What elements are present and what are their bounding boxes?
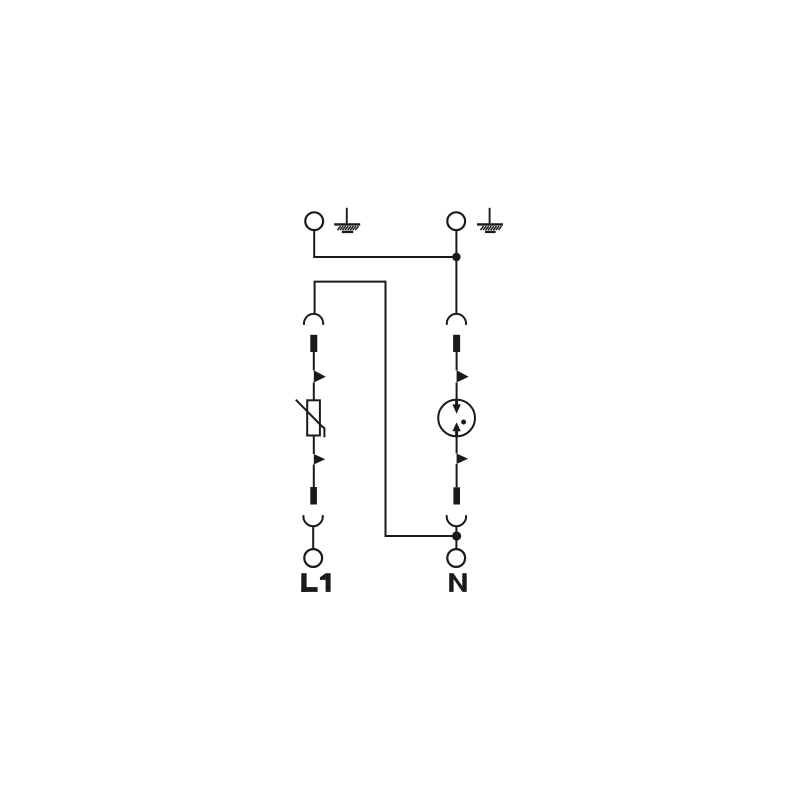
connector blade (L1 top) [310, 335, 317, 352]
arrow marker (N lower) [457, 454, 468, 465]
wire [456, 436, 458, 453]
connector blade (N bottom) [453, 487, 460, 504]
wire: N stem through junction [455, 526, 457, 550]
label L1 [301, 573, 330, 592]
wire [312, 526, 314, 550]
varistor diagonal [296, 400, 325, 438]
wire [456, 352, 458, 370]
label N [449, 573, 466, 592]
spark gap circle [438, 400, 475, 437]
terminal PE-left circle [305, 212, 323, 230]
wire [456, 383, 458, 400]
connector plug arc (L1 top, dome) [304, 314, 323, 325]
arrow marker (L1 lower) [314, 454, 325, 465]
wire: L1 branch top horizontal [315, 282, 386, 315]
wire [313, 383, 315, 401]
connector blade (L1 bottom) [310, 487, 317, 505]
wire [456, 464, 458, 487]
arrow marker (N upper) [457, 370, 469, 382]
terminal N circle [447, 549, 465, 567]
wire [313, 465, 315, 488]
arrow marker (L1 upper) [314, 370, 326, 382]
wire: left PE stem [313, 230, 315, 257]
terminal PE-right circle [447, 212, 465, 230]
spark gap trigger dot [461, 420, 466, 425]
connector socket arc (L1 bottom, cup) [303, 515, 322, 526]
terminal L1 circle [304, 549, 322, 567]
spark gap bottom electrode arrow [455, 430, 458, 436]
connector socket arc (N bottom, cup) [447, 515, 466, 526]
spark gap top electrode arrow [455, 400, 458, 406]
varistor body [307, 400, 320, 435]
ground (right PE) [477, 208, 503, 232]
connector blade (N top) [453, 335, 460, 352]
node: N junction [452, 531, 461, 540]
node: PE junction [452, 253, 460, 261]
wire: PE horizontal bus [313, 256, 456, 258]
wire [313, 436, 315, 455]
connector plug arc (N top, dome) [447, 314, 466, 325]
wire [313, 352, 315, 370]
ground (left PE) [334, 208, 360, 232]
wire: right PE stem down to N branch [455, 230, 457, 314]
wire: middle vertical (L1 to N link) [386, 281, 457, 536]
